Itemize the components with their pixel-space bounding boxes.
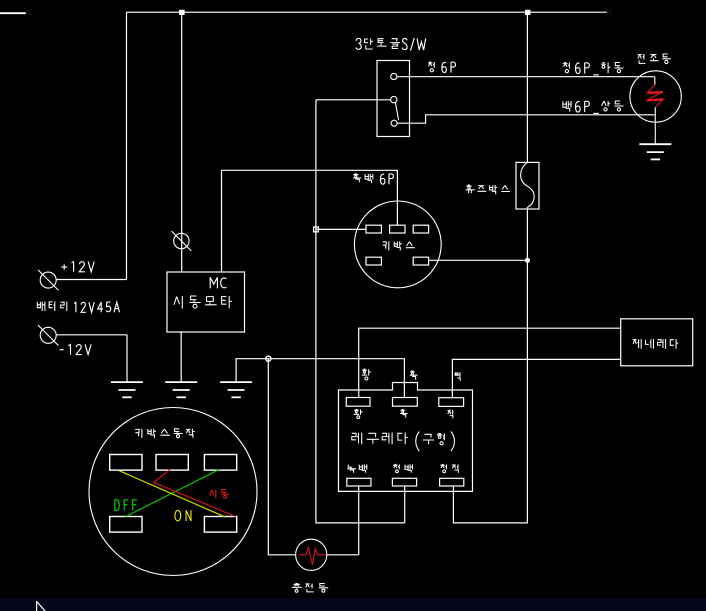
headlamp 전조등 lamp circle xyxy=(630,71,681,122)
key diagram pin B xyxy=(156,455,188,471)
key diagram pin E xyxy=(204,517,236,533)
wire battery + riser x=126 xyxy=(126,12,128,279)
headlamp filament leads xyxy=(654,77,656,85)
starter relay box MC 시동모타 xyxy=(167,272,245,332)
toggle pin1 (up) xyxy=(391,73,397,79)
key diagram pin C xyxy=(204,455,236,471)
label -12V xyxy=(60,349,64,351)
label ON xyxy=(175,510,181,521)
label 휴즈박스 xyxy=(466,185,475,193)
wire regulator 적 to generator xyxy=(452,359,620,397)
toggle lever xyxy=(395,102,398,120)
wire fuse feed x=527.5 vertical top xyxy=(526,12,528,162)
key box pin1 xyxy=(366,225,381,233)
key diagram pin D xyxy=(110,517,142,533)
label MC xyxy=(210,277,217,288)
key switch diagram 키박스동작 circle xyxy=(89,408,257,576)
label 키박스 xyxy=(383,241,389,250)
fuse element S-curve xyxy=(521,162,535,209)
label 충전등 xyxy=(292,584,302,589)
regulator pin 황 xyxy=(346,398,370,407)
label 전조등 xyxy=(638,54,646,63)
label 황 (pin) xyxy=(354,410,363,415)
label 청6P_하동 xyxy=(563,63,570,69)
fuse box 휴즈박스 body xyxy=(516,162,539,209)
taskbar strip xyxy=(0,598,706,611)
inline connector symbol on starter feed xyxy=(174,233,189,248)
junction key box pin5 tap xyxy=(525,258,530,263)
wire key box pin5 to fuse net xyxy=(429,259,528,261)
regulator pin 적 xyxy=(439,398,464,407)
wire toggle pin3 청6P 상등 jog xyxy=(397,115,655,123)
label 3단토글S/W xyxy=(356,38,361,49)
key box pin5 xyxy=(413,257,428,265)
wire fuse to regulator x=527.5 vertical bottom xyxy=(453,209,527,523)
label 적 (wire) xyxy=(455,372,461,381)
battery terminal +12V xyxy=(40,272,56,288)
wire top-left stub net xyxy=(0,12,26,14)
wire charge lamp to 녹백 xyxy=(327,554,359,556)
junction top bus / fuse branch xyxy=(525,10,530,15)
charge lamp 충전등 circle xyxy=(296,539,327,570)
generator box 제네레다 xyxy=(621,319,693,366)
wire headlamp to ground xyxy=(654,122,656,144)
label 시동모타 xyxy=(174,296,182,309)
key box pin2 xyxy=(390,225,405,233)
regulator pin 청적 xyxy=(440,478,464,486)
key diagram pin A xyxy=(110,455,142,471)
wire +12V terminal to riser xyxy=(57,279,127,281)
label 시동 (red) xyxy=(210,490,216,499)
label +12V xyxy=(61,264,67,269)
toggle pin3 (down) xyxy=(391,120,397,126)
ground G4 headlamp xyxy=(639,143,671,145)
junction charge lamp tap xyxy=(266,356,271,361)
wire starter motor feed x=181.5 xyxy=(181,12,183,272)
label 적 (pin) xyxy=(448,410,453,419)
wire 녹백 to charge lamp xyxy=(358,486,360,555)
wire -12V terminal to ground riser xyxy=(57,334,128,336)
node snap-marker (faint) xyxy=(24,8,32,16)
wire MC box to ground xyxy=(180,332,182,382)
contact line ON (yellow) xyxy=(119,471,225,517)
wire regulator 황 to generator xyxy=(359,328,621,397)
wire junction down to charge lamp xyxy=(268,359,295,555)
contact line OFF (green) xyxy=(126,469,220,516)
wire toggle common x=315.9 vertical xyxy=(316,100,405,523)
label 청백 xyxy=(393,464,399,469)
label DFF xyxy=(115,500,119,511)
label battery 배터리 12V45A xyxy=(37,302,45,312)
wire toggle pin1 청6P to headlight low beam xyxy=(397,76,655,78)
key box pin3 xyxy=(413,225,428,233)
mouse cursor xyxy=(37,601,47,611)
headlamp filament (red) xyxy=(647,85,664,107)
contact line START (red) xyxy=(154,469,236,517)
label 레구레다(구형) xyxy=(352,433,362,445)
wire 청백 to toggle common xyxy=(404,486,406,523)
node snap-marker at bus end (faint) xyxy=(605,8,612,15)
regulator 레규레다(구형) body xyxy=(339,383,473,492)
toggle pin2 (common) xyxy=(391,96,397,102)
label 흑백 6P xyxy=(353,174,362,183)
key box pin4 xyxy=(366,257,381,265)
wire main +12V top bus xyxy=(127,11,608,13)
junction key box tap xyxy=(314,227,319,232)
label 제네레다 xyxy=(633,339,642,349)
label 흑 (wire) xyxy=(410,371,418,380)
label 백6P_상등 xyxy=(563,101,571,112)
wire junction to key box pin1 xyxy=(316,228,366,230)
ground G3 regulator 흑 xyxy=(220,381,252,383)
toggle switch 3단토글 S/W body xyxy=(377,61,410,137)
key box 키박스 connector circle xyxy=(354,201,441,288)
junction top bus / starter branch xyxy=(179,10,185,15)
wire -12V down to ground xyxy=(126,335,128,382)
ground G2 starter motor xyxy=(165,381,197,383)
label 청적 xyxy=(440,464,446,469)
label 청 6P xyxy=(428,62,434,68)
label 황 (wire) xyxy=(362,369,371,375)
label 키박스동작 xyxy=(135,429,142,438)
ground G1 battery negative xyxy=(111,381,143,383)
wire toggle pin2 to common net xyxy=(316,99,391,101)
label 흑 (pin) xyxy=(400,410,407,418)
wire regulator 흑 to charge lamp / ground net xyxy=(236,359,404,398)
regulator pin 녹백 xyxy=(347,478,371,486)
charge lamp element (red) xyxy=(300,547,326,564)
label 녹백 xyxy=(347,465,356,473)
regulator pin 청백 xyxy=(392,478,416,486)
wire MC control up-over to key box 흑백6P xyxy=(222,170,398,272)
battery terminal -12V xyxy=(40,327,56,343)
regulator pin 흑 xyxy=(393,398,418,407)
